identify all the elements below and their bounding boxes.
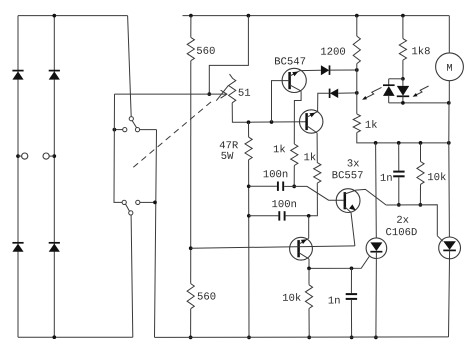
wire motor bottom lead [448, 81, 450, 103]
node SCR1 anode junction [374, 141, 378, 145]
node motor bottom junction [447, 101, 451, 105]
label R5 1k [304, 153, 309, 160]
transistor Q4 base bar [297, 240, 300, 257]
wire R6 down [356, 64, 358, 114]
wire R2 bottom lead [190, 309, 192, 338]
wire R7 to gate rail [357, 133, 449, 143]
wire R9 top lead [420, 143, 422, 162]
node top rail feed [247, 14, 251, 18]
transistor Q3 base bar [344, 192, 347, 209]
wire SCR2 cathode [449, 250, 450, 337]
wire P1 top stub [230, 74, 233, 78]
wire Q1 collector down [294, 91, 301, 144]
motor M1 [436, 53, 464, 81]
wire SCR1 cathode [375, 252, 378, 338]
label C3 1n [381, 174, 386, 181]
wire left rail [114, 94, 122, 202]
wire D5 to node [330, 69, 357, 71]
wire AC terminal left stub [18, 155, 22, 157]
node R9 bottom junction [419, 203, 423, 207]
switch S1b throw right contact [136, 200, 140, 204]
label C2 100n [272, 200, 277, 207]
thyristor SCR2 element [443, 241, 456, 249]
label R1 560 [197, 47, 202, 54]
label C1 100n [264, 170, 269, 177]
switch S1b pole contact [129, 211, 133, 215]
wire left box top [18, 15, 128, 17]
P1 wiper slash [216, 86, 228, 101]
resistor R9 10k [417, 162, 424, 185]
capacitor C4 1n [346, 293, 357, 295]
wire switch rail to pot [115, 93, 210, 95]
transistor Q1 base bar [288, 72, 291, 89]
wire right rail down [155, 130, 157, 338]
switch S1a throw right contact [135, 128, 139, 132]
transistor Q4 circle [290, 237, 313, 260]
node D5 junction [355, 68, 359, 72]
node top rail R1200 [355, 14, 359, 18]
node motor line junction [447, 141, 451, 145]
wire C2 left lead [249, 215, 278, 217]
node triac top junction [401, 77, 405, 81]
transistor Q2 emitter diagonal [307, 112, 318, 118]
Q4 emitter arrow [301, 239, 307, 244]
wire triac top rail [389, 78, 403, 80]
wire AC terminal right stub [49, 155, 54, 157]
transistor Q2 collector diagonal [307, 126, 318, 133]
wire R1 top lead [190, 16, 192, 38]
wire pot to Q2 base [249, 121, 307, 123]
transistor Q3 collector diagonal [345, 189, 386, 205]
node 47R top junction [247, 120, 251, 124]
node C3 junction [397, 141, 401, 145]
thyristor T2 right [402, 79, 404, 86]
node R9 junction [419, 141, 423, 145]
P1 wiper arrowhead [221, 90, 227, 98]
wire SCR1 anode [375, 143, 378, 238]
wire left box bottom [18, 336, 133, 338]
label R9 10k [428, 173, 433, 180]
node pot feed junction [207, 92, 211, 96]
diode D1 [12, 70, 23, 72]
wire Q2 collector down [316, 133, 318, 163]
label R3 47R [220, 141, 225, 148]
wire R8 down [402, 60, 404, 79]
wire top rail [183, 15, 450, 17]
diode D3 [49, 70, 60, 72]
wire S1a right throw to right rail [140, 129, 157, 131]
wire S1b right throw to right rail [140, 201, 155, 203]
thyristor SCR2 circle [439, 237, 461, 259]
node Q4 collector junction [307, 267, 311, 271]
switch S1a blade [132, 121, 137, 128]
resistor R6 1200 [353, 36, 360, 64]
node triac bottom junction [401, 101, 405, 105]
switch S1a pole contact [129, 117, 133, 121]
node C2 left junction [247, 214, 251, 218]
Q3 emitter arrow [349, 204, 356, 210]
thyristor T1 left [388, 79, 390, 85]
label C4 1n [329, 297, 334, 304]
node C3 bottom junction [397, 203, 401, 207]
diode D5 [321, 65, 329, 75]
wire C3 bottom lead [398, 177, 400, 205]
node bottom rail SCR1 [374, 336, 378, 340]
node bottom rail 47R [247, 336, 251, 340]
wire R8 top lead [402, 16, 404, 39]
node AC terminal left [16, 154, 20, 158]
wire Q4 emitter up [308, 216, 310, 239]
transistor Q2 circle [300, 110, 323, 133]
node top rail R1 [189, 14, 193, 18]
diode D4 [49, 242, 60, 244]
wire SCR2 anode [448, 143, 451, 237]
wire bottom rail [155, 336, 449, 339]
switch S1b blade [126, 204, 130, 211]
wire SCR1 gate [309, 256, 369, 268]
wire P1 wiper [209, 93, 227, 95]
wire R6 top lead [356, 16, 358, 36]
node Q4 base wire junction [189, 246, 193, 250]
capacitor C2 100n [278, 211, 280, 220]
wire top rail to pot feed [209, 16, 248, 95]
wire C4 bottom lead [350, 300, 352, 338]
wire Q4 collector down [308, 259, 310, 269]
thyristor SCR1 circle [366, 238, 387, 259]
opto arrow left [363, 87, 381, 99]
resistor R5 1k [314, 163, 321, 184]
wire box corner to switch pole [128, 16, 132, 117]
resistor R10 10k [305, 285, 312, 309]
wire R1 to R2 [190, 61, 192, 284]
node C2 right junction [307, 214, 311, 218]
wire SCR2 gate diagonal [437, 236, 443, 241]
capacitor C1 100n [277, 182, 279, 191]
wire Q1 base [272, 81, 290, 122]
label R6 1200 [321, 48, 326, 55]
transistor Q4 collector diagonal [299, 253, 309, 259]
wire triac bottom rail [389, 102, 449, 104]
transistor Q1 emitter diagonal [290, 71, 301, 77]
wire C1 right lead [284, 185, 294, 187]
resistor R1 560 [187, 37, 194, 60]
wire motor top lead [448, 16, 450, 53]
label R4 1k [274, 145, 279, 152]
node bottom rail R2 [189, 336, 193, 340]
switch S1b throw left contact [122, 200, 126, 204]
node C1 right junction [292, 185, 296, 189]
node rail junction S1a [113, 128, 117, 132]
label R7 1k [366, 121, 371, 128]
potentiometer P1 51 body [229, 78, 236, 103]
transistor Q2 base bar [305, 113, 308, 130]
label Q3 3x [347, 159, 352, 166]
wire C4 top lead [350, 268, 352, 293]
wire R4 bottom [293, 166, 295, 187]
wire to Q3 base [294, 186, 343, 200]
AC input terminal right [43, 153, 49, 159]
wire C1 left lead [249, 185, 277, 187]
wire C2 right lead [286, 215, 309, 217]
label R8 1k8 [412, 47, 417, 54]
diode D6 [330, 89, 338, 98]
resistor R8 1k8 [399, 39, 406, 61]
node C4 top junction [350, 266, 354, 270]
wire 47R top lead [248, 122, 250, 137]
AC input terminal left [22, 153, 28, 159]
label R2 560 [198, 293, 203, 300]
resistor R7 1k [353, 114, 360, 133]
node AC terminal right [52, 154, 56, 158]
wire R9 bottom lead [419, 184, 421, 205]
Q2 emitter arrow [310, 113, 316, 118]
node right rail junction S1b [153, 201, 157, 205]
label R3 5W [221, 152, 226, 159]
wire R5 bottom [309, 183, 318, 216]
wire left box left edge [17, 16, 19, 338]
wire S1b pole down to box bottom [131, 215, 133, 337]
wire S1a left throw to rail [114, 129, 122, 131]
wire R10 bottom lead [308, 309, 310, 338]
resistor R3 47R 5W [245, 137, 252, 160]
node D6 junction [355, 91, 359, 95]
label P1 51 [239, 89, 244, 96]
resistor R2 560 [187, 284, 194, 309]
thyristor SCR1 element [370, 242, 382, 251]
label Q3 BC557 [333, 171, 338, 178]
wire D6 right to node [338, 92, 357, 94]
wire Q4 base through [191, 246, 355, 248]
transistor Q4 emitter diagonal [299, 238, 309, 244]
wire motor junction down [448, 103, 450, 143]
node Q1 base junction [270, 120, 274, 124]
wire D6 left to Q2 [318, 93, 330, 111]
transistor Q1 collector diagonal [290, 85, 302, 91]
transistor Q1 circle [282, 68, 306, 92]
switch S1a throw left contact [123, 128, 127, 132]
wire Q1 emitter to D5 [300, 69, 321, 71]
wire Q3 collector rail [386, 205, 437, 236]
label 2x [397, 216, 402, 223]
node bottom rail C4 [350, 336, 354, 340]
transistor Q3 emitter diagonal [345, 207, 355, 246]
label R10 10k [283, 294, 288, 301]
wire P1 bottom lead [232, 103, 248, 122]
label Q1 BC547 [275, 57, 280, 64]
opto arrow right [414, 86, 429, 96]
transistor Q3 circle [336, 189, 360, 213]
capacitor C3 1n [393, 171, 404, 173]
node junction bottom inner branch [52, 335, 56, 339]
node top rail R1k8 [401, 14, 405, 18]
wire R10 top lead [308, 268, 310, 284]
node junction top inner branch [52, 14, 56, 18]
wire 47R down [248, 160, 250, 338]
node bottom rail R10 [307, 336, 311, 340]
mechanical link dashed [133, 101, 212, 167]
diode D2 [12, 242, 23, 244]
resistor R4 1k [291, 144, 298, 166]
label C106D [386, 228, 391, 235]
Q1 emitter arrow [292, 72, 298, 77]
wire inner rectifier branch [53, 16, 55, 338]
node C1 left junction [247, 184, 251, 188]
wire C3 top lead [398, 143, 400, 171]
